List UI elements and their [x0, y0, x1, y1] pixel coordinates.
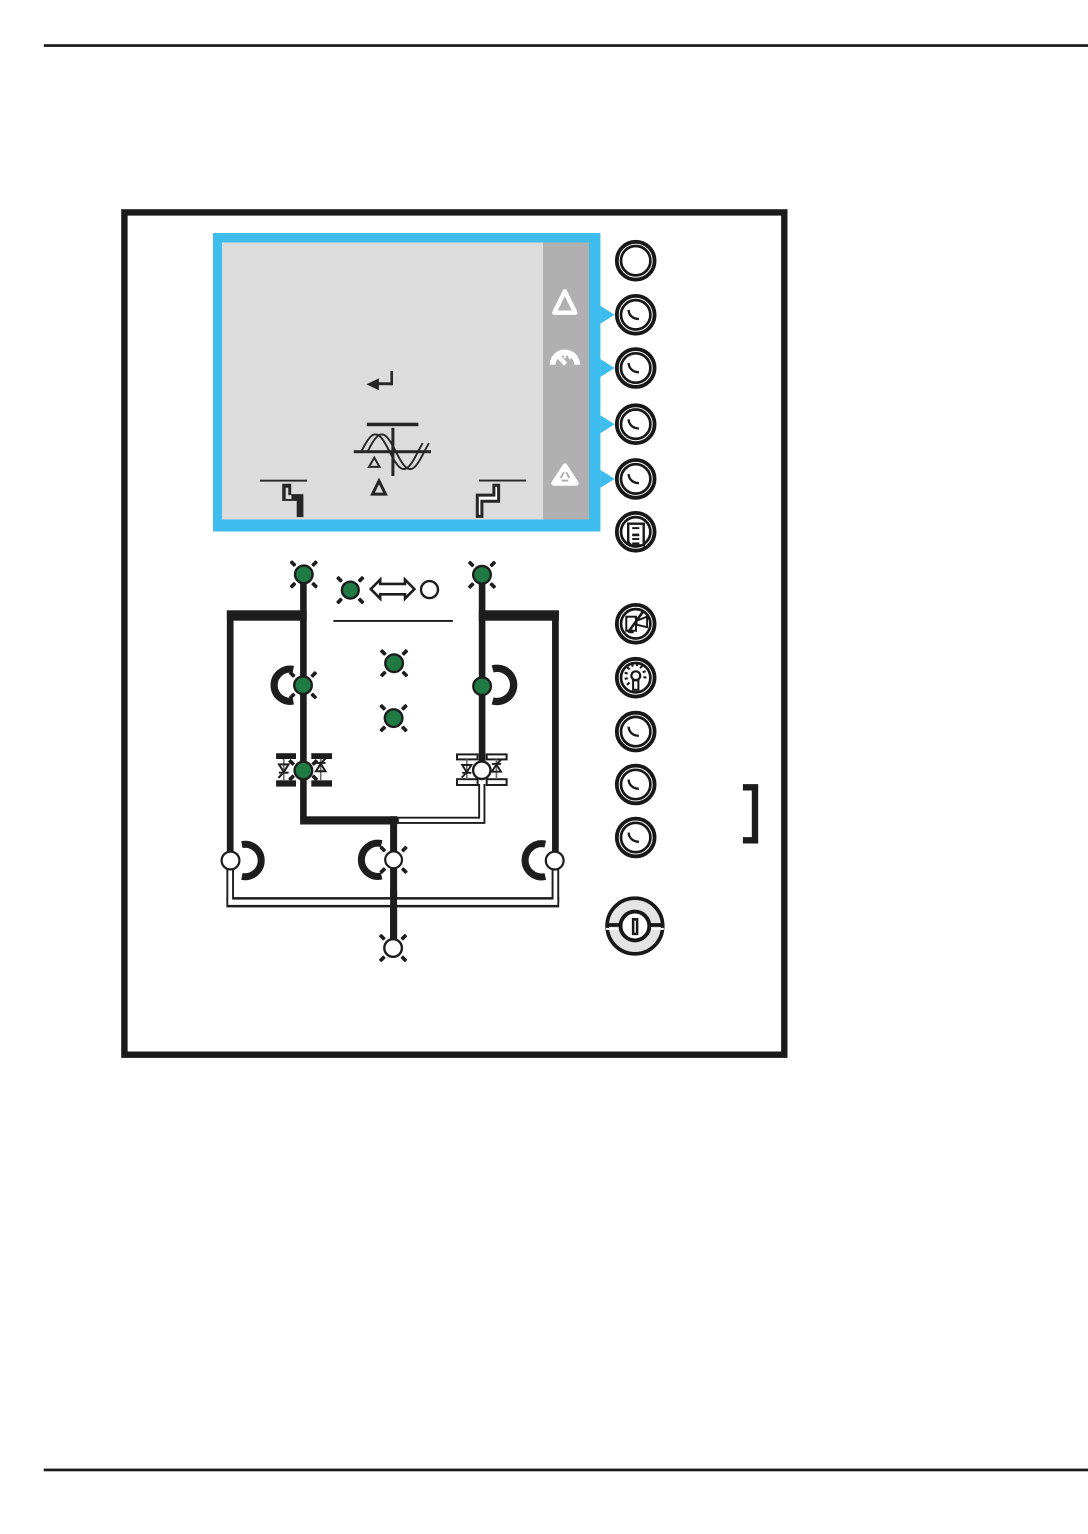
wire: top-left branch — [227, 610, 307, 620]
button: function key F5 — [617, 460, 655, 498]
softkey pointer arrow 4 — [600, 470, 614, 488]
LED: bypass input (top right) — [468, 560, 497, 589]
softkey pointer arrow 1 — [600, 306, 614, 324]
wire: left input vertical — [300, 577, 307, 818]
top rule — [44, 44, 1088, 47]
button: lamp test — [617, 659, 655, 697]
button: function key F1 — [617, 242, 655, 280]
breaker arc: bypass — [493, 668, 514, 701]
wire: left bypass vertical — [227, 611, 234, 852]
bottom rule — [44, 1469, 1088, 1472]
strip icon: gauge — [550, 350, 580, 365]
display bezel (cyan) — [213, 233, 600, 532]
LED: rectifier ok — [289, 671, 318, 700]
SCR block: inverter static switch — [276, 753, 332, 786]
softkey pointer arrow 2 — [600, 359, 614, 377]
wire: output vertical — [390, 816, 397, 940]
LED: inverter status — [380, 649, 409, 678]
wire: right bypass vertical — [552, 611, 559, 852]
LED: bypass ok — [473, 677, 491, 695]
breaker arc: rectifier — [274, 669, 293, 701]
enter-key symbol — [366, 371, 393, 390]
panel frame — [124, 212, 784, 1054]
button: function key F9 — [617, 819, 655, 857]
wire: inverter output elbow — [300, 816, 397, 824]
display screen — [222, 243, 543, 520]
wire: maintenance bypass double line — [226, 864, 559, 907]
SCR block: bypass static switch — [457, 754, 507, 785]
wire: top-right branch — [479, 610, 559, 620]
wire: static switch output (double line) — [393, 784, 482, 820]
button: function key F4 — [617, 405, 655, 443]
redraw output vertical over band — [390, 890, 397, 940]
LED: rectifier input (top left) — [289, 560, 318, 589]
wire: right input vertical — [479, 577, 486, 766]
breaker: maintenance bypass right — [525, 844, 564, 877]
button: display off — [617, 605, 655, 643]
LED: inverter SCR on — [295, 762, 313, 780]
button: function key F3 — [617, 349, 655, 387]
strip icon: triangle — [554, 291, 575, 312]
button: function key F7 — [617, 713, 655, 751]
step-down symbol — [260, 480, 307, 517]
softkey pointer arrow 3 — [600, 415, 614, 433]
display side strip — [543, 243, 589, 520]
legend: off LED — [421, 581, 438, 598]
legend: double arrow — [371, 580, 415, 599]
strip icon: alarm triangle — [554, 466, 576, 483]
button: function key F2 — [617, 296, 655, 334]
button: function key F8 — [617, 766, 655, 804]
LED: battery status — [379, 704, 408, 733]
legend underline — [333, 620, 453, 622]
legend: blinking LED — [336, 576, 365, 605]
button: event log — [617, 513, 655, 551]
LED: bypass SCR off — [473, 762, 490, 779]
LED: load supplied — [379, 934, 408, 963]
step-up symbol — [477, 480, 526, 517]
sync/sine symbol — [354, 423, 431, 494]
breaker: maintenance bypass left — [222, 844, 262, 876]
button: power on — [606, 898, 664, 954]
bracket mark — [743, 787, 755, 840]
breaker: output — [361, 843, 408, 876]
